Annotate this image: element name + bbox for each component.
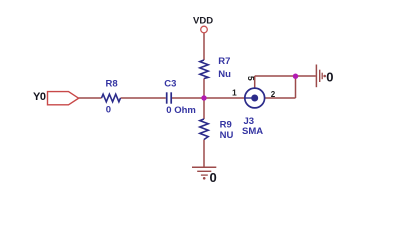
svg-text:VDD: VDD [193,15,213,26]
svg-text:C3: C3 [164,78,176,89]
svg-text:0: 0 [210,170,217,185]
svg-text:R9: R9 [220,119,232,130]
svg-text:2: 2 [271,90,276,99]
svg-text:R7: R7 [218,56,230,67]
svg-text:Y0: Y0 [33,91,46,103]
svg-text:0: 0 [106,105,111,116]
svg-text:R8: R8 [106,78,118,89]
svg-text:SMA: SMA [242,126,263,137]
svg-text:0 Ohm: 0 Ohm [166,105,196,116]
svg-text:Nu: Nu [218,69,231,80]
svg-text:5: 5 [246,76,256,81]
svg-text:0: 0 [326,70,333,85]
svg-text:NU: NU [220,130,234,141]
svg-text:1: 1 [232,88,237,98]
